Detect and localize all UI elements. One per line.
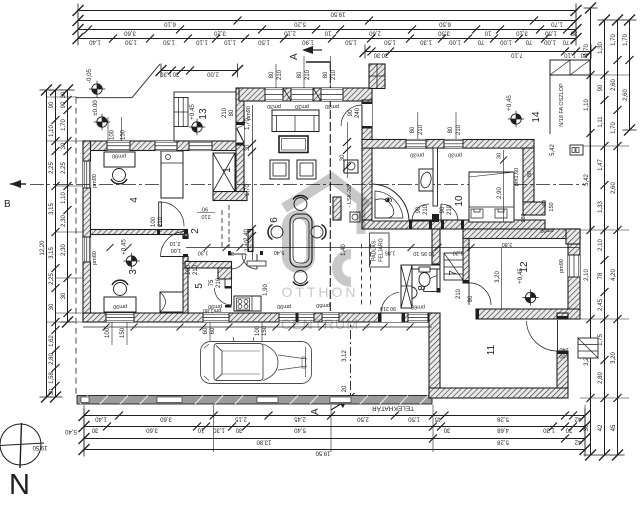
svg-text:1,30: 1,30 — [213, 427, 225, 433]
svg-text:1,10: 1,10 — [564, 52, 576, 58]
double door hall-dining right — [242, 254, 257, 269]
svg-text:70: 70 — [562, 39, 569, 45]
exterior step room 11 — [578, 338, 598, 358]
svg-text:19,50: 19,50 — [330, 11, 346, 17]
svg-text:1,70: 1,70 — [61, 119, 67, 131]
interior wall room3 right upper — [183, 234, 188, 239]
svg-text:4,20: 4,20 — [611, 269, 617, 281]
svg-text:pm60: pm60 — [316, 302, 330, 308]
window entry top — [189, 141, 212, 151]
svg-text:±0,00: ±0,00 — [92, 100, 99, 116]
svg-text:90: 90 — [598, 84, 604, 91]
svg-text:pm90: pm90 — [540, 227, 553, 233]
svg-text:1,40: 1,40 — [95, 416, 107, 422]
attic ladder — [444, 253, 463, 280]
svg-text:210: 210 — [158, 216, 164, 227]
svg-text:210: 210 — [331, 69, 337, 80]
elevation marker +0,45 terrace — [506, 95, 524, 128]
dining chair bottom — [293, 271, 308, 286]
dining chair top — [293, 195, 308, 210]
svg-text:30: 30 — [245, 144, 251, 151]
svg-text:2,60: 2,60 — [623, 89, 629, 101]
watermark OC logo roof arrow — [284, 178, 368, 234]
chair room 3 — [112, 280, 128, 295]
elevation marker +-0,00 — [92, 100, 110, 130]
sofa — [272, 110, 319, 132]
right dimension chain far — [623, 15, 637, 136]
door hall-living gap — [362, 104, 372, 126]
dimension line total 19,50 — [73, 4, 582, 18]
svg-text:11: 11 — [486, 344, 497, 355]
svg-text:2: 2 — [190, 228, 201, 234]
svg-text:20: 20 — [342, 385, 348, 392]
corner bathtub room 9 — [372, 184, 409, 221]
svg-text:100: 100 — [186, 264, 192, 275]
svg-text:1,10: 1,10 — [224, 39, 236, 45]
niche block — [570, 145, 583, 155]
section marker B left — [4, 180, 26, 210]
svg-text:3,60: 3,60 — [124, 30, 136, 36]
svg-text:70: 70 — [477, 39, 484, 45]
svg-text:10: 10 — [484, 30, 491, 36]
svg-text:1,85: 1,85 — [385, 250, 396, 256]
svg-text:210: 210 — [277, 69, 283, 80]
svg-text:1,00: 1,00 — [171, 247, 182, 253]
svg-text:5: 5 — [194, 283, 205, 289]
svg-text:pm30: pm30 — [410, 152, 424, 158]
svg-text:7,10: 7,10 — [511, 52, 523, 58]
svg-text:6,50: 6,50 — [439, 21, 451, 27]
paver strip fence along property line — [77, 396, 432, 405]
svg-text:10: 10 — [197, 427, 204, 433]
living window 2 — [291, 88, 313, 101]
svg-text:30: 30 — [381, 52, 388, 58]
svg-text:pm90: pm90 — [92, 174, 98, 188]
svg-text:3,60: 3,60 — [146, 427, 158, 433]
svg-text:30: 30 — [172, 71, 179, 77]
svg-text:3,20: 3,20 — [495, 271, 501, 283]
elevation marker +0,45 room 12 — [517, 268, 539, 306]
sink room 8 — [412, 287, 417, 299]
dimension line 6,10 - 5,20 - 6,50 — [73, 14, 582, 28]
interior wall 7-12 — [463, 239, 469, 284]
cabinet room 2 — [160, 292, 183, 312]
room3 door dims — [186, 264, 199, 275]
svg-text:42: 42 — [574, 416, 581, 422]
jamb room12 bottom wall — [476, 309, 479, 319]
door room 3 — [161, 232, 186, 257]
window pm30 room 10 — [444, 140, 463, 149]
door room11 jambs — [557, 316, 568, 319]
room 10 wall jog — [523, 202, 545, 215]
svg-text:30: 30 — [228, 250, 234, 256]
window pm90 room 4 top — [107, 141, 130, 151]
svg-text:1,30: 1,30 — [160, 71, 172, 77]
door room 11 right — [527, 320, 558, 351]
svg-text:2,10: 2,10 — [598, 239, 604, 251]
svg-text:30: 30 — [61, 142, 67, 149]
svg-text:1,70: 1,70 — [611, 122, 617, 134]
svg-text:1,90: 1,90 — [302, 39, 314, 45]
svg-text:+0,45: +0,45 — [121, 239, 128, 255]
svg-text:90 210: 90 210 — [380, 305, 396, 311]
svg-text:90: 90 — [49, 101, 55, 108]
window pm90 bottom 1 — [203, 313, 229, 322]
door room 10 — [441, 204, 458, 221]
svg-text:30: 30 — [49, 388, 55, 395]
svg-text:8: 8 — [417, 285, 428, 291]
svg-text:1,30: 1,30 — [543, 427, 555, 433]
svg-text:CENTRUM: CENTRUM — [281, 316, 359, 332]
svg-text:45: 45 — [611, 424, 617, 431]
svg-text:90: 90 — [468, 295, 474, 302]
svg-text:1,50: 1,50 — [258, 39, 270, 45]
window pm60 room 3 left — [83, 237, 91, 262]
svg-text:210: 210 — [456, 124, 462, 135]
corridor bottom - room 12 top wall — [463, 229, 580, 239]
svg-text:1,10: 1,10 — [49, 125, 55, 137]
terrace 14 edge left — [549, 75, 551, 134]
svg-text:pm1,60: pm1,60 — [514, 168, 520, 186]
kitchen counter — [234, 296, 261, 311]
door hall-living jambs — [362, 102, 372, 105]
svg-text:75: 75 — [209, 279, 215, 286]
svg-text:2,30: 2,30 — [61, 215, 67, 227]
svg-text:1,00: 1,00 — [500, 39, 512, 45]
rooms 9-10 bottom wall — [362, 220, 545, 229]
svg-text:210: 210 — [447, 204, 453, 215]
svg-text:2,00: 2,00 — [207, 71, 219, 77]
interior wall room3 right — [183, 257, 188, 314]
section line B-B — [30, 184, 585, 186]
svg-text:19,50: 19,50 — [32, 444, 48, 450]
svg-text:N/18 FA OSZLOP: N/18 FA OSZLOP — [559, 83, 565, 127]
bottom dimension line 1 — [79, 409, 591, 423]
svg-text:5,40: 5,40 — [65, 428, 77, 434]
svg-text:2,10: 2,10 — [584, 269, 590, 281]
double door leaves rect — [247, 261, 266, 266]
svg-text:78: 78 — [598, 272, 604, 279]
double door hall-dining left — [231, 254, 246, 269]
chimney shaft with bracing — [401, 265, 412, 308]
svg-text:2,60: 2,60 — [611, 79, 617, 91]
svg-text:1,11: 1,11 — [598, 116, 604, 128]
svg-text:N: N — [9, 469, 30, 501]
dashed partition hall — [221, 210, 223, 248]
svg-text:30: 30 — [373, 52, 380, 58]
svg-text:1,70: 1,70 — [245, 184, 251, 196]
terrace 14 pillar — [550, 60, 590, 75]
room 11 left wall — [429, 313, 440, 398]
armchair 2 — [297, 160, 316, 179]
chimney block — [369, 64, 385, 89]
svg-text:5,28: 5,28 — [497, 416, 509, 422]
svg-text:30: 30 — [91, 427, 98, 433]
wc right wall — [437, 269, 440, 292]
svg-text:1,40: 1,40 — [89, 39, 101, 45]
wc top wall — [412, 265, 440, 269]
window pm90 room 12 right — [568, 255, 580, 277]
room 9 door dims — [416, 204, 453, 215]
svg-text:pm30: pm30 — [267, 103, 281, 109]
right dimension chain inner — [611, 15, 625, 461]
svg-text:13,80: 13,80 — [256, 439, 272, 445]
toilet room 8 — [419, 267, 430, 287]
dining chair left — [268, 225, 283, 240]
dimension line 7,10 right — [360, 45, 597, 59]
svg-text:9: 9 — [384, 197, 395, 203]
svg-text:1,70: 1,70 — [611, 34, 617, 46]
svg-text:OTTHON: OTTHON — [281, 284, 358, 300]
dimension line openings — [73, 32, 582, 46]
chimney inner lines — [369, 64, 385, 89]
svg-text:1: 1 — [222, 167, 233, 173]
svg-text:14: 14 — [531, 111, 542, 123]
entry door gap — [236, 125, 244, 143]
svg-text:240: 240 — [559, 346, 568, 352]
section marker A bottom — [310, 400, 347, 415]
masonry pillar 2 — [313, 88, 321, 101]
svg-text:90: 90 — [416, 206, 422, 213]
exterior wall left — [83, 141, 91, 322]
svg-text:1,50: 1,50 — [384, 39, 396, 45]
bottom wall outside chain — [83, 324, 432, 331]
svg-text:4: 4 — [129, 197, 140, 203]
svg-text:30: 30 — [565, 427, 572, 433]
svg-text:10: 10 — [454, 195, 465, 207]
car leader lines — [203, 322, 268, 341]
svg-text:30: 30 — [340, 154, 346, 161]
svg-text:2,10: 2,10 — [284, 30, 296, 36]
svg-text:1,20: 1,20 — [453, 250, 464, 256]
svg-text:pm90: pm90 — [113, 303, 127, 309]
svg-text:10 95 10: 10 95 10 — [413, 250, 434, 256]
svg-text:10: 10 — [324, 30, 331, 36]
right dimension chain mid — [598, 15, 612, 461]
svg-text:90: 90 — [61, 101, 67, 108]
property boundary left — [75, 98, 77, 395]
interior chain x347 — [340, 122, 351, 178]
window pm60 room 4 left — [83, 161, 91, 188]
svg-text:pm90: pm90 — [246, 106, 252, 120]
svg-text:12,20: 12,20 — [40, 240, 46, 256]
svg-text:30: 30 — [443, 427, 450, 433]
labels pm60 left wall — [92, 174, 98, 265]
svg-text:42: 42 — [574, 439, 581, 445]
svg-text:1,70: 1,70 — [623, 34, 629, 46]
porch 13 outline — [174, 92, 236, 141]
elevation marker -0,05 — [86, 68, 105, 97]
svg-text:90: 90 — [440, 206, 446, 213]
desk room 4 — [104, 152, 135, 167]
svg-text:100: 100 — [110, 129, 116, 140]
room 12 right wall — [568, 229, 580, 310]
svg-text:1,90: 1,90 — [263, 284, 269, 296]
svg-text:100: 100 — [559, 353, 568, 359]
svg-text:30: 30 — [49, 303, 55, 310]
svg-text:pm30: pm30 — [295, 103, 309, 109]
dining table — [290, 214, 312, 267]
svg-text:2,80: 2,80 — [598, 372, 604, 384]
room 11 bottom wall — [429, 388, 568, 398]
svg-text:80: 80 — [323, 71, 329, 78]
svg-text:1,50: 1,50 — [408, 416, 420, 422]
svg-text:1,30: 1,30 — [198, 250, 209, 256]
living window 1 — [265, 88, 283, 101]
svg-text:3,60: 3,60 — [160, 416, 172, 422]
svg-text:4,68: 4,68 — [497, 427, 509, 433]
window leaders living — [269, 56, 337, 88]
watermark letter O — [287, 215, 311, 269]
door wc 8 — [424, 276, 440, 292]
entry door jambs — [236, 122, 244, 125]
svg-text:1,47: 1,47 — [598, 159, 604, 171]
svg-text:2,25: 2,25 — [49, 273, 55, 285]
svg-text:pm90: pm90 — [112, 153, 126, 159]
dining chair right — [311, 225, 326, 240]
svg-text:150: 150 — [121, 129, 127, 140]
washing machine — [344, 160, 358, 173]
room 11 right wall lower — [557, 351, 568, 388]
svg-text:100: 100 — [151, 216, 157, 227]
svg-text:30: 30 — [61, 292, 67, 299]
room 12 dims — [495, 248, 565, 309]
svg-text:FELJÁRÓ: FELJÁRÓ — [378, 238, 385, 261]
room4 door dims — [151, 216, 164, 227]
living window 3 — [321, 88, 343, 101]
left chain extension lines — [46, 97, 83, 322]
svg-text:pm60: pm60 — [92, 251, 98, 265]
coffee table — [279, 136, 308, 153]
door room4 jambs — [157, 230, 160, 235]
svg-text:7: 7 — [448, 270, 459, 276]
svg-text:1,10: 1,10 — [61, 192, 67, 204]
svg-text:2,80: 2,80 — [49, 353, 55, 365]
svg-text:5,42: 5,42 — [550, 144, 556, 156]
porch right wall column — [236, 88, 244, 201]
svg-text:1,58: 1,58 — [49, 372, 55, 384]
svg-text:1,10: 1,10 — [584, 99, 590, 111]
svg-text:1,00: 1,00 — [449, 39, 461, 45]
svg-text:2,15: 2,15 — [235, 416, 247, 422]
svg-text:5,20: 5,20 — [294, 21, 306, 27]
room 10 dims — [497, 144, 557, 233]
svg-text:30: 30 — [235, 427, 242, 433]
entry door leaf — [237, 126, 244, 143]
svg-text:6: 6 — [269, 217, 280, 223]
exterior wall left wing top — [83, 141, 236, 151]
svg-text:2,60: 2,60 — [611, 182, 617, 194]
back door jambs — [378, 313, 381, 322]
interior thin wall rooms 9-10 — [432, 148, 439, 222]
svg-text:2,45: 2,45 — [598, 299, 604, 311]
right chain extension lines — [580, 75, 629, 398]
corridor dim labels — [502, 241, 513, 247]
svg-text:+0,45: +0,45 — [189, 104, 196, 120]
interior dim chain x252 — [245, 105, 256, 260]
dimension line terrace 2,00 — [156, 64, 244, 78]
section marker A top — [289, 46, 330, 62]
svg-text:1,50: 1,50 — [545, 30, 557, 36]
chair room 4 — [111, 169, 127, 184]
svg-text:3: 3 — [128, 269, 139, 275]
svg-text:2,50: 2,50 — [357, 416, 369, 422]
svg-text:2,10: 2,10 — [170, 240, 181, 246]
window pm90 leaders room4 — [108, 117, 127, 141]
svg-text:45: 45 — [434, 416, 441, 422]
svg-text:2,40: 2,40 — [244, 229, 250, 241]
svg-text:210: 210 — [305, 69, 311, 80]
svg-text:210: 210 — [201, 213, 210, 219]
svg-text:80: 80 — [269, 71, 275, 78]
back door gap bottom wall — [381, 313, 402, 322]
dashed partition hall 2 — [228, 205, 230, 248]
svg-text:30: 30 — [497, 153, 503, 159]
svg-text:2,25: 2,25 — [49, 162, 55, 174]
wall jog living-bath — [362, 100, 372, 220]
svg-text:80: 80 — [229, 109, 235, 116]
svg-text:6,10: 6,10 — [164, 21, 176, 27]
svg-text:-0,05: -0,05 — [86, 68, 93, 83]
room 11 door dim — [559, 346, 568, 359]
terrace 14 edge right — [589, 75, 591, 230]
right dimension chain outer — [584, 3, 598, 461]
svg-text:1,10: 1,10 — [196, 39, 208, 45]
svg-text:42: 42 — [598, 424, 604, 431]
room5 door dims — [209, 277, 222, 288]
window leaders rooms 9-10 — [410, 112, 462, 140]
svg-text:60: 60 — [210, 327, 216, 334]
label PADLAS FELJARO — [370, 233, 390, 267]
left dimension top window — [61, 85, 75, 328]
svg-text:A: A — [289, 53, 300, 60]
compass circle — [0, 423, 44, 468]
pier dining-hall — [333, 197, 341, 220]
svg-text:1,00: 1,00 — [544, 39, 556, 45]
wardrobe room 4 — [161, 151, 183, 198]
bed room 10 — [469, 172, 514, 222]
svg-text:5,28: 5,28 — [497, 439, 509, 445]
svg-text:210: 210 — [193, 264, 199, 275]
armchair 1 — [270, 160, 289, 179]
svg-text:3,50: 3,50 — [438, 30, 450, 36]
svg-text:3,12: 3,12 — [342, 350, 348, 362]
section line A upper — [329, 62, 331, 313]
door room 12 — [469, 283, 491, 305]
door room3 dims — [170, 240, 182, 253]
svg-text:90: 90 — [348, 109, 354, 116]
svg-text:1,62: 1,62 — [49, 335, 55, 347]
section line A lower — [342, 313, 355, 404]
interior wall corridor 7 left — [432, 229, 440, 264]
door room3 jambs — [183, 236, 188, 239]
desk room 3 — [104, 297, 136, 312]
door room4 leaf and swing — [159, 202, 184, 226]
svg-text:80: 80 — [542, 200, 548, 206]
car — [201, 337, 312, 384]
door room 5 — [215, 288, 232, 305]
door room10 jambs — [441, 220, 444, 229]
attic opening dashed lines — [362, 244, 371, 307]
svg-text:13: 13 — [198, 108, 209, 120]
svg-text:210: 210 — [222, 107, 228, 118]
window bottom 2 divider — [296, 313, 299, 322]
svg-text:150: 150 — [120, 327, 126, 338]
bottom dimension line 4 — [79, 443, 591, 457]
door room 9 — [412, 204, 429, 221]
window pm90 bottom room3 — [106, 313, 134, 322]
shaft with cross bracing — [213, 153, 235, 192]
